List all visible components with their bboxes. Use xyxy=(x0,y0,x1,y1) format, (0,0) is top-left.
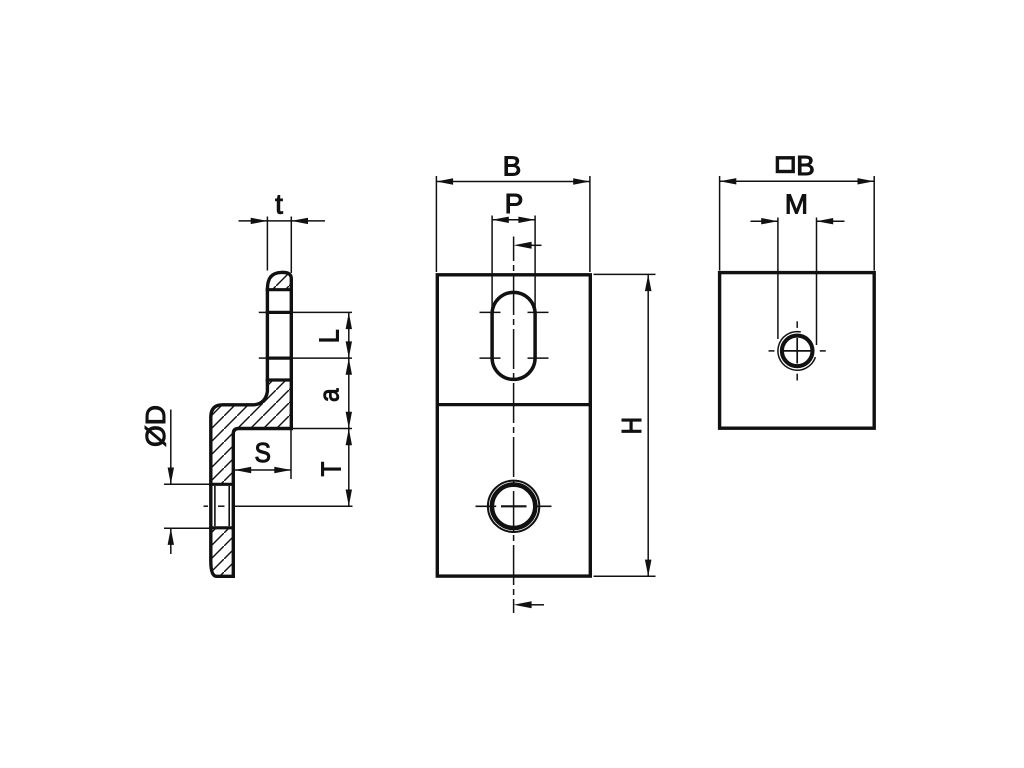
svg-text:M: M xyxy=(785,188,808,219)
end view: thread thick circle xyxy=(782,336,813,367)
dimension ØD: arrowheads xyxy=(168,468,174,545)
dimension H: dimension line xyxy=(647,274,649,576)
label square-B symbol xyxy=(777,158,793,172)
side view: slot top edge (cap bottom) xyxy=(266,288,293,291)
side view: hatched section areas xyxy=(267,272,291,289)
dimension a arrowheads xyxy=(346,358,352,428)
front view: step edge line xyxy=(437,403,590,406)
dimension M: dimension lines xyxy=(751,220,778,222)
dimension t: dimension line xyxy=(239,220,326,222)
side view: slot bottom edge xyxy=(266,378,293,381)
end view: hole centerlines xyxy=(769,350,775,352)
dimension P: extension lines xyxy=(491,216,493,312)
dimension L arrowheads xyxy=(346,312,352,358)
svg-text:B: B xyxy=(796,150,815,181)
front view: hole horizontal centerline xyxy=(476,505,497,507)
front view: vertical centerline xyxy=(513,237,515,614)
dimension S: extension line xyxy=(290,430,292,479)
front view: slot tangent ticks xyxy=(480,311,501,313)
dimension B (end view): dimension line xyxy=(720,180,875,182)
dimension B (front): arrowheads xyxy=(436,178,590,184)
svg-text:t: t xyxy=(275,189,283,220)
dimension H: extension lines xyxy=(594,273,656,275)
svg-text:T: T xyxy=(315,462,347,477)
dimension B (front): extension lines xyxy=(435,176,437,272)
dimension P: dimension line xyxy=(492,219,535,221)
front view: slot outline xyxy=(492,292,535,379)
front view: hole thick circle xyxy=(492,485,535,528)
dimension ØD: dimension lines xyxy=(170,410,172,485)
dimension L/a/T: dimension line xyxy=(348,312,350,506)
svg-text:H: H xyxy=(615,417,647,434)
dimension t: arrowheads xyxy=(251,218,308,224)
side view: hole top edge xyxy=(209,483,235,486)
side view: slot tangent edge lower xyxy=(266,357,293,360)
side view: hole chamfer line left xyxy=(214,486,216,526)
dimension B (front): dimension line xyxy=(436,181,590,183)
side view: hole centerline + T extension xyxy=(204,505,209,507)
end view: square plate outline xyxy=(720,273,875,429)
svg-text:B: B xyxy=(503,150,522,181)
dimension L/a/T: tick extension lines xyxy=(259,311,266,313)
dimension S: dimension line xyxy=(235,469,292,471)
centerline reference arrow lower xyxy=(514,601,532,608)
side view: hole chamfer line right xyxy=(228,486,230,526)
front view: plate outline xyxy=(437,275,590,576)
dimension H: arrowheads xyxy=(645,274,652,576)
dimension t: extension lines xyxy=(266,217,268,271)
front view: hole thin circle xyxy=(488,481,539,532)
svg-text:ØD: ØD xyxy=(140,405,171,447)
dimension ØD: extension lines xyxy=(164,483,210,485)
dimension S: arrowheads xyxy=(235,467,292,473)
svg-text:P: P xyxy=(505,188,524,219)
dimension B (end view): arrowheads xyxy=(720,178,875,184)
side view: hole bottom edge xyxy=(209,526,235,529)
dimension P: arrowheads xyxy=(492,217,535,223)
centerline reference arrow upper xyxy=(514,242,532,249)
end view: thread major thin arc xyxy=(778,332,816,371)
side view: slot tangent edge upper xyxy=(266,311,293,314)
dimension T arrowheads xyxy=(346,429,352,507)
dimension M: arrowheads xyxy=(761,218,833,224)
dimension M: extension lines xyxy=(777,218,779,340)
dimension B (end view): extension lines xyxy=(719,176,721,271)
svg-text:L: L xyxy=(313,329,345,343)
side view: section outline of Z-bracket xyxy=(211,272,291,576)
svg-text:a: a xyxy=(313,388,345,402)
svg-text:S: S xyxy=(254,436,270,468)
